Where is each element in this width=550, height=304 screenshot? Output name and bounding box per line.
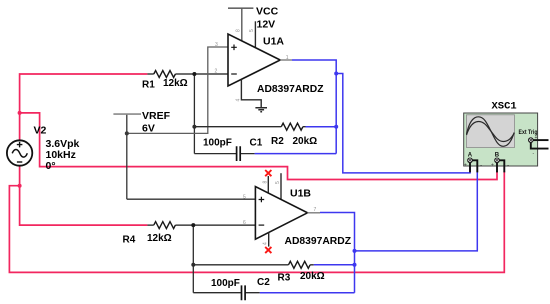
svg-text:C2: C2 — [257, 277, 270, 288]
svg-text:12kΩ: 12kΩ — [163, 78, 188, 89]
plus sign U1B — [259, 197, 265, 203]
node junction R4/pin6 — [191, 223, 195, 227]
ground — [255, 108, 267, 112]
wire C2 row (black) — [193, 292, 259, 294]
wire feedback node down to C1/R2 row (black) — [193, 74, 195, 154]
node junction R1/pin2 — [192, 72, 196, 76]
terminal B — [491, 153, 509, 173]
wire U1A pin4 to ground — [241, 79, 261, 107]
svg-text:8: 8 — [236, 29, 242, 32]
plus sign U1A — [231, 45, 237, 51]
svg-text:U1A: U1A — [263, 36, 284, 48]
svg-text:8: 8 — [262, 181, 268, 184]
wire R3 right (blue) — [314, 264, 355, 266]
terminal A — [464, 153, 482, 173]
output stub pin1 — [280, 59, 292, 61]
svg-text:XSC1: XSC1 — [492, 101, 517, 113]
wire U1B output to scope A- (blue) — [355, 171, 478, 251]
wire R1 to U1A pin2 (black) — [147, 73, 228, 75]
scope trace A — [467, 117, 515, 147]
svg-text:VCC: VCC — [256, 6, 279, 18]
ERC marker x on U1B pin4 — [265, 247, 271, 253]
svg-text:4: 4 — [236, 99, 242, 102]
wire VREF net to U1A pin3 (gray) — [127, 114, 256, 199]
wire V2 top branch to scope B+ (red net) — [20, 113, 497, 180]
scope trace B — [467, 122, 515, 142]
svg-text:20kΩ: 20kΩ — [300, 271, 325, 282]
wire VCC to U1A pin8 — [241, 8, 243, 41]
wire R4 to U1B pin6 (black) — [147, 224, 255, 226]
svg-text:R4: R4 — [123, 235, 136, 246]
svg-text:V2: V2 — [34, 125, 47, 137]
node junction R3 branch — [191, 263, 195, 267]
wire R2 right to output vertical (blue) — [306, 126, 337, 128]
power symbol VREF — [113, 113, 141, 115]
svg-text:5: 5 — [243, 194, 246, 200]
svg-text:AD8397ARDZ: AD8397ARDZ — [257, 84, 324, 95]
node junction A- branch — [353, 249, 357, 253]
svg-text:3: 3 — [215, 42, 218, 48]
oscilloscope XSC1 body — [464, 113, 538, 166]
svg-text:12V: 12V — [257, 19, 276, 31]
svg-text:4: 4 — [262, 242, 268, 245]
node junction output branch — [334, 72, 338, 76]
node junction on V2 bottom wire — [18, 184, 22, 188]
svg-text:6V: 6V — [142, 123, 155, 135]
resistor R3 — [289, 261, 311, 268]
svg-text:+: + — [491, 163, 494, 169]
svg-text:0°: 0° — [46, 160, 56, 172]
minus sign U1B — [259, 224, 265, 226]
pin stub 4 U1B with ERC marker — [268, 233, 270, 247]
wire U1B output net (blue) — [320, 213, 355, 293]
power symbol VCC — [228, 7, 253, 9]
ERC marker x on U1B pin8 — [265, 170, 271, 176]
pin stub 5 U1B — [280, 173, 282, 199]
svg-text:U1B: U1B — [290, 188, 311, 200]
output stub pin7 — [308, 212, 321, 214]
node junction on V2 top wire — [18, 111, 22, 115]
node junction on VREF stem — [125, 131, 129, 135]
svg-text:100pF: 100pF — [211, 278, 240, 289]
terminal Ext Trig — [529, 135, 549, 157]
wire V2 bottom rail to scope B- (red net) — [9, 171, 504, 272]
svg-text:AD8397ARDZ: AD8397ARDZ — [285, 236, 352, 247]
pin stub 5 U1A — [254, 21, 256, 47]
svg-text:20kΩ: 20kΩ — [293, 136, 318, 147]
wire C2 right (blue) — [260, 292, 355, 294]
wire C1 right to output vertical (blue) — [255, 153, 337, 155]
svg-text:5: 5 — [249, 29, 255, 32]
resistor R4 — [154, 222, 176, 229]
op-amp U1B — [255, 187, 307, 240]
node junction R2/output — [334, 125, 338, 129]
resistor R2 — [281, 123, 303, 130]
svg-text:12kΩ: 12kΩ — [147, 233, 172, 244]
svg-text:R3: R3 — [278, 273, 291, 284]
wire V2 bottom to R4 (red net) — [20, 166, 148, 226]
node junction C1/R2 branch — [192, 125, 196, 129]
pin stub 8 U1B with ERC marker — [267, 176, 269, 193]
svg-text:5: 5 — [275, 181, 281, 184]
svg-text:R1: R1 — [142, 80, 155, 91]
minus sign U1A — [231, 73, 237, 75]
svg-text:VREF: VREF — [142, 110, 171, 122]
op-amp U1A — [228, 34, 280, 86]
wire U1B feedback node down to R3/C2 (black) — [192, 225, 194, 293]
capacitor C1 — [237, 146, 241, 161]
wire R2 row from node to resistor (black) — [194, 126, 305, 128]
wire C1 row (black) — [194, 153, 254, 155]
svg-text:+: + — [535, 135, 538, 141]
svg-text:+: + — [464, 163, 467, 169]
svg-text:6: 6 — [243, 220, 246, 226]
wire R3 row (black) — [193, 264, 313, 266]
svg-text:C1: C1 — [250, 138, 263, 149]
svg-text:2: 2 — [215, 69, 218, 75]
wire V2 top to R1 (red net) — [20, 74, 148, 141]
node junction R3/output — [353, 263, 357, 267]
svg-text:R2: R2 — [271, 136, 284, 147]
source V2 — [7, 140, 32, 165]
capacitor C2 — [242, 285, 246, 300]
svg-text:100pF: 100pF — [203, 138, 232, 149]
wire U1A output net (blue) — [292, 60, 470, 173]
resistor R1 — [154, 71, 176, 78]
